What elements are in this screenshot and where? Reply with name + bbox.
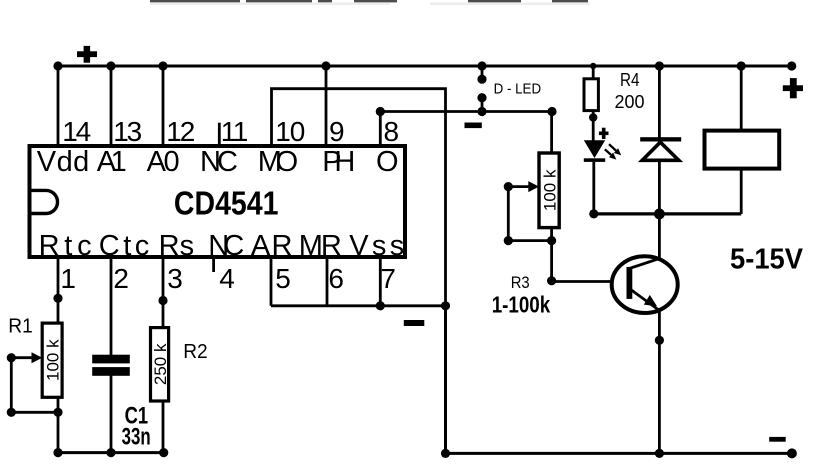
plus sign top right [783, 78, 803, 98]
wire: pin 5 down [270, 256, 273, 306]
wire: R3 wiper link [508, 187, 551, 241]
wire: relay top [740, 66, 743, 131]
svg-text:11: 11 [221, 116, 249, 147]
R1 wiper arrowhead [32, 352, 43, 363]
wire: LED cathode down [592, 162, 595, 214]
svg-text:A1: A1 [97, 146, 127, 178]
LED emission arrows [605, 144, 616, 155]
svg-text:CD4541: CD4541 [174, 185, 279, 222]
svg-text:33n: 33n [122, 423, 151, 450]
bottom pin numbers [60, 263, 396, 294]
svg-text:1: 1 [60, 263, 76, 294]
svg-text:5-15V: 5-15V [730, 243, 803, 275]
wire: R4 top [592, 66, 595, 79]
svg-text:R2: R2 [183, 341, 208, 363]
svg-text:R3: R3 [511, 273, 530, 292]
wire: pin 6 down [326, 256, 329, 306]
svg-text:100 k: 100 k [540, 169, 559, 211]
wire: Vss negative rail [271, 304, 446, 307]
pin 4 stub (NC) [212, 256, 215, 272]
wire: pin 12 to +V [162, 66, 165, 146]
relay coil body [705, 131, 780, 169]
diode D1 cathode bar [640, 137, 681, 141]
svg-text:Vdd: Vdd [37, 146, 90, 178]
transistor emitter slant [631, 289, 660, 310]
wire: pin 1 down [57, 256, 60, 453]
wire: pin 13 to +V [110, 66, 113, 146]
D-LED link upper stub [481, 66, 484, 79]
wire: pin 9 to +V [325, 66, 328, 146]
wire: pin 2 down to C1 [110, 256, 113, 355]
svg-text:MO: MO [258, 146, 299, 178]
svg-text:Vss: Vss [349, 230, 404, 262]
svg-text:MR: MR [299, 230, 342, 262]
LED cathode bar [584, 158, 605, 162]
svg-text:AR: AR [251, 230, 293, 262]
wire: emitter down to ground rail [658, 310, 661, 453]
cropped title text remnant [150, 0, 588, 2]
svg-text:9: 9 [329, 116, 345, 147]
wire: pin 10 up and over to Vss column [272, 89, 446, 307]
LED plus mark [599, 128, 609, 139]
svg-text:100 k: 100 k [44, 339, 63, 381]
wire: +V top rail [58, 65, 792, 68]
wire: collector node line [594, 212, 741, 215]
LED D triangle [584, 140, 605, 158]
top pin numbers [62, 116, 399, 147]
svg-text:5: 5 [275, 263, 291, 294]
transistor base bar [627, 267, 633, 299]
svg-text:6: 6 [328, 263, 344, 294]
wire: pin 7 down [379, 256, 382, 306]
resistor R2 body [151, 328, 169, 401]
svg-text:4: 4 [219, 263, 235, 294]
minus sign near Vss rail [404, 320, 425, 326]
svg-text:10: 10 [275, 116, 305, 147]
wire: collector into transistor [658, 214, 661, 260]
svg-text:NC: NC [200, 146, 238, 178]
svg-text:A0: A0 [147, 146, 180, 178]
IC notch [32, 190, 58, 213]
R3 wiper arrowhead [528, 181, 539, 192]
wire: bottom left ground rail [57, 451, 165, 454]
svg-text:Ctc: Ctc [99, 230, 150, 262]
wire: C1 to ground rail [110, 376, 113, 453]
svg-text:O: O [376, 146, 399, 178]
svg-text:D - LED: D - LED [494, 82, 541, 98]
potentiometer R1 body [42, 323, 62, 397]
svg-text:250 k: 250 k [151, 343, 170, 385]
wire: pot R3 top [550, 112, 553, 156]
svg-text:NC: NC [208, 230, 244, 262]
wire: bottom right ground rail [446, 306, 792, 454]
wire: pin 3 down [162, 256, 165, 453]
D-LED link lower stub [481, 98, 484, 112]
IC bottom pin labels [39, 230, 405, 262]
svg-text:14: 14 [62, 116, 91, 147]
svg-text:2: 2 [113, 263, 129, 294]
potentiometer R3 body [539, 153, 559, 228]
resistor R4 body [584, 79, 598, 111]
wire: pin 14 to +V [57, 66, 60, 146]
svg-text:Rtc: Rtc [39, 230, 92, 262]
svg-text:Rs: Rs [159, 230, 195, 262]
IC top pin labels [37, 146, 399, 178]
svg-text:R4: R4 [620, 70, 640, 90]
wire: pot R3 bottom to base node [550, 225, 553, 281]
wire: R4 to LED [592, 111, 595, 141]
IC U1 CD4541 body [30, 146, 406, 257]
plus sign top left [77, 46, 97, 63]
svg-text:12: 12 [166, 116, 195, 147]
svg-text:8: 8 [384, 116, 400, 147]
wire: relay bottom [740, 169, 743, 214]
transistor Q1 body [612, 256, 678, 313]
svg-text:R1: R1 [8, 316, 33, 338]
transistor collector slant [631, 259, 660, 269]
wire: R1 wiper link [11, 358, 58, 413]
wire: base to transistor [552, 280, 614, 283]
transistor emitter arrowhead [644, 295, 657, 306]
diode D1 triangle [642, 142, 679, 160]
minus sign bottom right [769, 437, 786, 442]
wire: pin 8 output line [380, 112, 552, 147]
svg-text:200: 200 [615, 92, 645, 112]
svg-text:1-100k: 1-100k [492, 292, 551, 318]
svg-text:PH: PH [322, 146, 355, 178]
svg-text:7: 7 [380, 263, 396, 294]
pin 11 stub (NC) [218, 123, 221, 146]
wire: diode branch vertical [658, 66, 661, 214]
svg-text:3: 3 [167, 263, 183, 294]
capacitor C1 plates [92, 355, 130, 376]
minus sign near D-LED [465, 123, 482, 129]
svg-text:13: 13 [113, 116, 142, 147]
